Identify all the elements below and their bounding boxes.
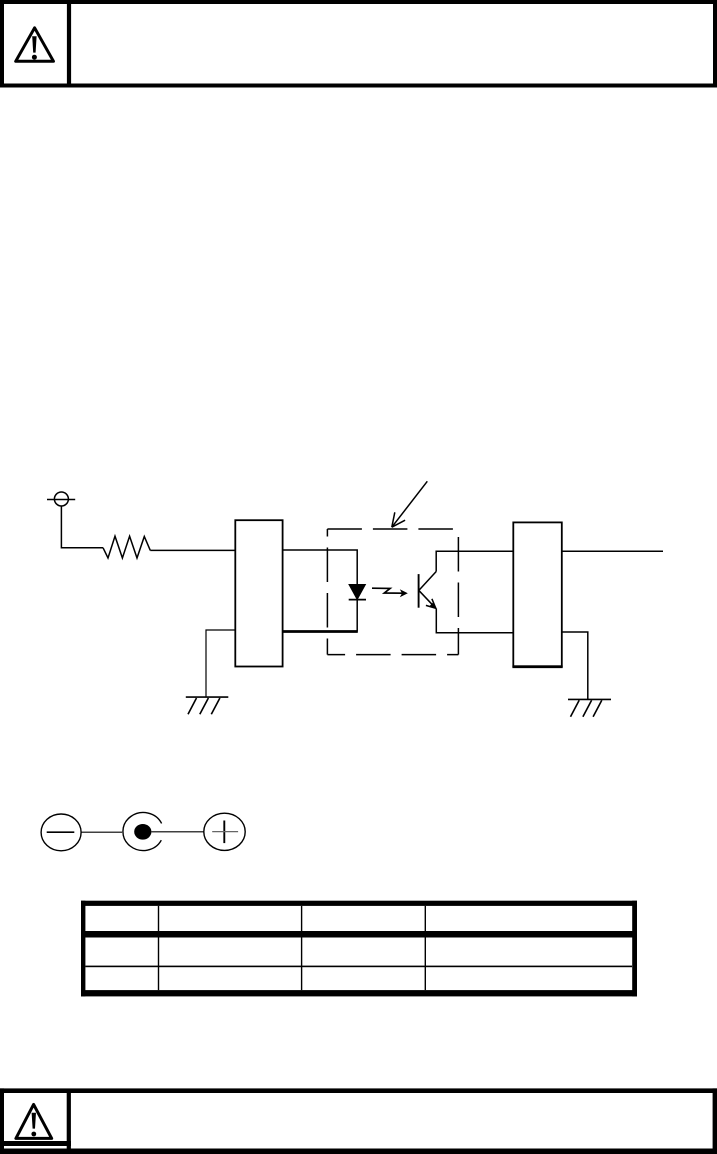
optocoupler dashed outline left edge <box>326 529 328 655</box>
polarity symbol: plus terminal <box>204 813 245 850</box>
polarity symbol: minus terminal <box>41 814 81 851</box>
table column line 1 <box>158 906 159 990</box>
table column line 3 <box>425 906 426 990</box>
polarity symbol: center pin (C arc) <box>123 813 162 851</box>
table outer left border <box>81 901 85 997</box>
phototransistor Q1 <box>419 572 437 609</box>
optocoupler dashed outline top edge <box>327 528 458 530</box>
bottom caution box divider <box>67 1092 71 1150</box>
LED D1 cathode bar <box>349 599 366 601</box>
bottom caution box top border <box>0 1088 717 1093</box>
bottom caution box right border <box>713 1088 717 1154</box>
wire from terminal down <box>61 506 103 547</box>
bottom caution box left border <box>0 1088 4 1154</box>
wire right block to ground <box>562 632 588 699</box>
table column line 2 <box>301 906 302 990</box>
table header separator (thick) <box>81 931 637 938</box>
warning triangle (top) <box>16 28 54 62</box>
table outer top border <box>81 901 637 906</box>
wire resistor to left block <box>150 549 235 551</box>
bottom caution box bottom border (clipped) <box>0 1149 717 1154</box>
ground (right) <box>568 699 611 716</box>
table outer bottom border <box>81 990 637 996</box>
LED D1 triangle <box>349 585 365 600</box>
terminal T1 <box>47 492 75 506</box>
thick wire LED return to left block <box>283 630 358 633</box>
top caution box outer frame <box>2 2 715 86</box>
wire right block output <box>562 550 663 552</box>
table outer right border <box>632 901 637 997</box>
optocoupler dashed outline right edge <box>457 529 459 655</box>
bottom caution icon cell bottom border <box>2 1141 71 1146</box>
right block U2 <box>513 522 562 666</box>
annotation arrow to optocoupler <box>392 481 428 527</box>
wire left block to LED anode <box>283 550 358 585</box>
resistor R1 <box>103 536 150 558</box>
wire LED cathode down <box>356 600 358 632</box>
ground (left) <box>186 697 229 714</box>
light emission squiggle arrow <box>372 588 408 597</box>
top caution box divider <box>67 2 71 86</box>
wire center to plus <box>151 831 203 833</box>
polarity symbol: center dot <box>134 824 151 840</box>
warning triangle (bottom) <box>16 1104 52 1138</box>
right block thick bottom edge <box>512 665 562 668</box>
table thin row line <box>85 966 632 968</box>
wire collector up to output <box>436 551 513 571</box>
wire left block to ground <box>206 630 235 697</box>
wire minus to center <box>81 831 122 833</box>
optocoupler dashed outline bottom edge <box>327 654 458 656</box>
wire emitter down to output <box>436 608 513 633</box>
left block U1 <box>235 520 282 666</box>
